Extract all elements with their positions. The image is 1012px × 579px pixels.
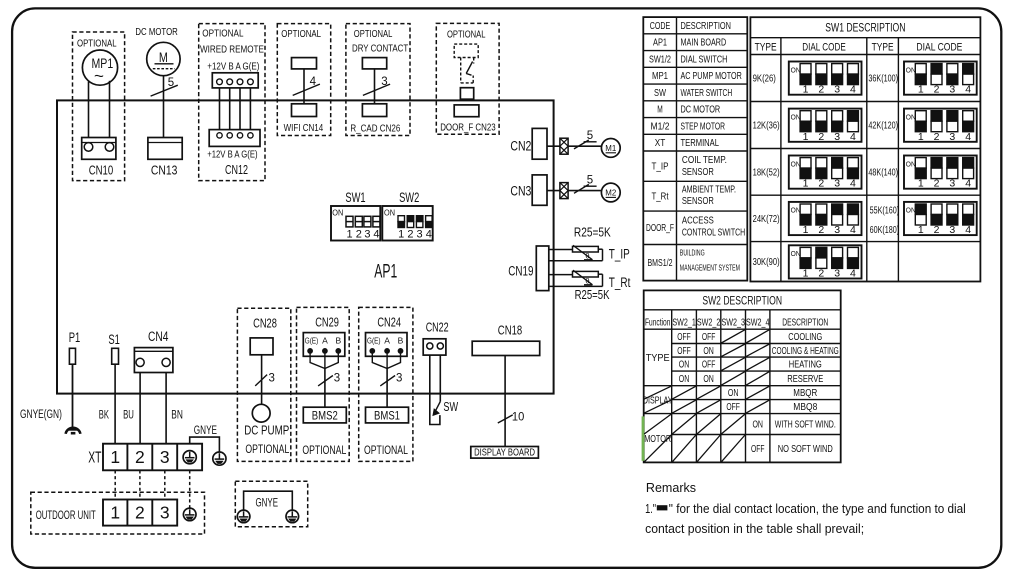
svg-text:3: 3 bbox=[834, 84, 840, 96]
svg-text:4: 4 bbox=[850, 268, 856, 280]
svg-text:MBQ8: MBQ8 bbox=[793, 402, 817, 413]
connector CN3 bbox=[532, 175, 547, 205]
svg-text:4: 4 bbox=[850, 224, 856, 236]
svg-text:OPTIONAL: OPTIONAL bbox=[354, 29, 393, 40]
svg-text:SENSOR: SENSOR bbox=[682, 196, 714, 207]
svg-text:2: 2 bbox=[818, 268, 824, 280]
connector R_CAD lower bbox=[362, 104, 386, 117]
dial code 9K(26) bbox=[789, 62, 862, 95]
wire XT3 to outdoor 3 bbox=[164, 470, 166, 499]
svg-text:ON: ON bbox=[679, 374, 690, 385]
svg-text:1: 1 bbox=[803, 178, 809, 190]
svg-text:3: 3 bbox=[334, 372, 340, 384]
svg-text:5: 5 bbox=[587, 175, 593, 187]
svg-text:R25=5K: R25=5K bbox=[574, 225, 611, 239]
wire S1 to XT1 BK bbox=[114, 364, 116, 444]
svg-text:AC PUMP MOTOR: AC PUMP MOTOR bbox=[681, 71, 742, 82]
svg-text:ON: ON bbox=[679, 360, 690, 371]
slash 5-wire mark M1 bbox=[574, 140, 589, 149]
svg-text:DC MOTOR: DC MOTOR bbox=[681, 105, 721, 116]
terminal outdoor bbox=[103, 500, 177, 526]
motor MP1 bbox=[82, 50, 117, 85]
ferrite filter CN3 bbox=[560, 183, 568, 199]
svg-text:4: 4 bbox=[850, 178, 856, 190]
svg-text:ON: ON bbox=[752, 420, 763, 431]
svg-text:1: 1 bbox=[803, 224, 809, 236]
connector CN29 bbox=[303, 333, 345, 357]
wire CN4 to XT3 BN bbox=[165, 373, 167, 444]
thermistor T_IP bbox=[549, 249, 573, 251]
svg-text:12K(36): 12K(36) bbox=[753, 121, 780, 132]
wire CN29 to BMS2 bbox=[310, 353, 338, 369]
svg-text:CODE: CODE bbox=[650, 21, 671, 32]
svg-text:ON: ON bbox=[906, 114, 916, 121]
svg-text:4: 4 bbox=[850, 84, 856, 96]
svg-text:1: 1 bbox=[918, 178, 924, 190]
svg-text:M1/2: M1/2 bbox=[651, 121, 670, 132]
wire CN24 to BMS1 bbox=[372, 353, 400, 369]
svg-text:CONTROL SWITCH: CONTROL SWITCH bbox=[682, 227, 745, 238]
outdoor unit box bbox=[31, 492, 205, 534]
connector CN10 bbox=[82, 138, 116, 160]
svg-text:COOLING: COOLING bbox=[788, 332, 822, 343]
svg-text:DIAL CODE: DIAL CODE bbox=[802, 42, 846, 54]
wire CN2 to M1 bbox=[547, 145, 602, 147]
svg-text:TYPE: TYPE bbox=[646, 352, 670, 364]
svg-text:OFF: OFF bbox=[677, 332, 691, 343]
svg-text:OPTIONAL: OPTIONAL bbox=[447, 30, 486, 41]
svg-text:ON: ON bbox=[791, 67, 801, 74]
svg-text:T_Rt: T_Rt bbox=[609, 275, 631, 290]
connector CN23 lower bbox=[454, 105, 479, 117]
wire GNYE bridge bbox=[244, 491, 293, 510]
svg-text:WIFI CN14: WIFI CN14 bbox=[284, 122, 324, 134]
svg-text:B: B bbox=[398, 335, 404, 345]
svg-text:CN29: CN29 bbox=[315, 316, 339, 330]
dial code 24K(72) bbox=[789, 202, 862, 235]
dial code 36K(100) bbox=[904, 62, 977, 95]
svg-text:SW2_2: SW2_2 bbox=[697, 317, 721, 328]
optional box CN24 BMS1 bbox=[359, 307, 413, 461]
ground GNYE external bbox=[213, 452, 226, 465]
svg-text:4: 4 bbox=[965, 131, 971, 143]
svg-text:P1: P1 bbox=[69, 330, 81, 345]
svg-text:OPTIONAL: OPTIONAL bbox=[364, 443, 408, 457]
dial code 42K(120) bbox=[904, 109, 977, 142]
display board bbox=[471, 447, 539, 459]
svg-text:DISPLAY: DISPLAY bbox=[643, 394, 673, 406]
svg-text:3: 3 bbox=[834, 268, 840, 280]
svg-text:BMS1: BMS1 bbox=[374, 410, 400, 422]
svg-text:2: 2 bbox=[135, 447, 145, 467]
svg-text:DISPLAY BOARD: DISPLAY BOARD bbox=[474, 447, 535, 458]
svg-text:M: M bbox=[159, 50, 168, 65]
svg-text:1: 1 bbox=[803, 131, 809, 143]
svg-text:M1: M1 bbox=[605, 143, 616, 153]
svg-text:SW2_1: SW2_1 bbox=[672, 317, 696, 328]
svg-text:SW2: SW2 bbox=[399, 189, 419, 205]
svg-text:GNYE: GNYE bbox=[194, 423, 217, 437]
svg-text:R25=5K: R25=5K bbox=[575, 288, 610, 302]
svg-text:OPTIONAL: OPTIONAL bbox=[202, 29, 244, 40]
slash 3-wire mark CN29 bbox=[318, 376, 333, 386]
svg-text:55K(160): 55K(160) bbox=[870, 206, 900, 217]
svg-text:+12V B A G(E): +12V B A G(E) bbox=[207, 61, 259, 72]
svg-text:MBQR: MBQR bbox=[793, 388, 817, 399]
svg-text:G(E): G(E) bbox=[367, 335, 381, 345]
svg-text:G(E): G(E) bbox=[305, 335, 319, 345]
svg-text:3: 3 bbox=[949, 84, 955, 96]
svg-text:ON: ON bbox=[703, 346, 714, 357]
svg-text:SW: SW bbox=[443, 399, 458, 414]
svg-text:3: 3 bbox=[949, 224, 955, 236]
svg-text:BMS2: BMS2 bbox=[312, 410, 338, 422]
svg-text:CN19: CN19 bbox=[508, 264, 533, 279]
svg-text:2: 2 bbox=[818, 224, 824, 236]
svg-text:COOLING & HEATING: COOLING & HEATING bbox=[772, 346, 839, 357]
dial code 48K(140) bbox=[904, 156, 977, 189]
svg-text:DIAL CODE: DIAL CODE bbox=[916, 42, 962, 54]
svg-text:2: 2 bbox=[407, 228, 413, 240]
svg-text:4: 4 bbox=[965, 84, 971, 96]
step motor M1 bbox=[601, 139, 620, 158]
svg-text:DC PUMP: DC PUMP bbox=[244, 424, 289, 438]
svg-text:3: 3 bbox=[834, 178, 840, 190]
svg-text:3: 3 bbox=[834, 131, 840, 143]
svg-text:10: 10 bbox=[512, 411, 524, 423]
svg-text:2: 2 bbox=[818, 84, 824, 96]
device BMS2 bbox=[303, 407, 346, 423]
svg-text:3: 3 bbox=[949, 131, 955, 143]
svg-text:3: 3 bbox=[834, 224, 840, 236]
svg-text:MAIN BOARD: MAIN BOARD bbox=[681, 38, 727, 49]
connector WIFI upper bbox=[292, 58, 317, 69]
svg-text:1: 1 bbox=[918, 131, 924, 143]
svg-text:5: 5 bbox=[587, 130, 593, 142]
svg-text:4: 4 bbox=[850, 131, 856, 143]
wire CN18 to display board bbox=[504, 356, 506, 447]
svg-text:ACCESS: ACCESS bbox=[682, 216, 714, 227]
svg-text:T_IP: T_IP bbox=[652, 162, 669, 173]
svg-text:3: 3 bbox=[381, 76, 387, 88]
optional box MP1 pump bbox=[73, 32, 125, 181]
step motor M2 bbox=[601, 183, 620, 202]
dial code 12K(36) bbox=[789, 109, 862, 142]
svg-text:MP1: MP1 bbox=[652, 71, 668, 82]
wire P1 to earth bbox=[72, 364, 74, 430]
svg-text:XT: XT bbox=[88, 450, 101, 467]
wire WIFI bbox=[303, 69, 305, 104]
svg-text:contact position in the tabl: contact position in the table shall prev… bbox=[645, 522, 864, 536]
svg-text:OPTIONAL: OPTIONAL bbox=[281, 29, 321, 40]
svg-text:3: 3 bbox=[160, 502, 170, 522]
svg-text:2: 2 bbox=[934, 178, 940, 190]
svg-text:3: 3 bbox=[949, 178, 955, 190]
device BMS1 bbox=[366, 407, 409, 423]
connector CN12 bbox=[209, 130, 260, 147]
svg-text:ON: ON bbox=[791, 114, 801, 121]
optional box wired remote CN12 bbox=[199, 24, 265, 181]
svg-text:4: 4 bbox=[965, 224, 971, 236]
svg-text:WIRED REMOTE: WIRED REMOTE bbox=[200, 44, 264, 55]
slash 5-wire mark M2 bbox=[574, 184, 589, 193]
svg-text:CN2: CN2 bbox=[510, 139, 531, 154]
svg-text:WATER SWITCH: WATER SWITCH bbox=[681, 88, 733, 99]
svg-text:60K(180): 60K(180) bbox=[870, 225, 900, 236]
svg-text:SW2 DESCRIPTION: SW2 DESCRIPTION bbox=[702, 295, 782, 307]
svg-text:9K(26): 9K(26) bbox=[753, 74, 776, 85]
svg-text:36K(100): 36K(100) bbox=[868, 74, 898, 85]
svg-text:2: 2 bbox=[934, 224, 940, 236]
svg-text:TYPE: TYPE bbox=[872, 42, 894, 54]
svg-text:R_CAD CN26: R_CAD CN26 bbox=[350, 123, 400, 135]
svg-text:NO SOFT WIND: NO SOFT WIND bbox=[778, 444, 833, 455]
slash 3-wire mark CN24 bbox=[380, 376, 395, 386]
green highlight bar bbox=[642, 416, 645, 460]
svg-text:CN24: CN24 bbox=[377, 316, 401, 330]
svg-text:BN: BN bbox=[171, 408, 183, 422]
svg-text:DOOR_F: DOOR_F bbox=[646, 223, 674, 234]
svg-text:1: 1 bbox=[110, 502, 120, 522]
svg-text:CN22: CN22 bbox=[426, 321, 449, 335]
svg-text:ON: ON bbox=[791, 208, 801, 215]
wire M to CN13 bbox=[163, 76, 165, 138]
svg-text:WITH SOFT WIND.: WITH SOFT WIND. bbox=[775, 420, 836, 431]
svg-text:ON: ON bbox=[906, 161, 916, 168]
SW2 description table bbox=[644, 290, 841, 462]
svg-text:CN4: CN4 bbox=[148, 329, 169, 344]
svg-text:1: 1 bbox=[346, 228, 352, 240]
svg-text:B: B bbox=[335, 335, 341, 345]
svg-text:MANAGEMENT SYSTEM: MANAGEMENT SYSTEM bbox=[680, 264, 740, 273]
svg-text:OFF: OFF bbox=[751, 444, 765, 455]
svg-text:2: 2 bbox=[356, 228, 362, 240]
svg-text:M: M bbox=[657, 105, 663, 116]
slash 4-wire mark bbox=[293, 84, 320, 95]
svg-text:OUTDOOR UNIT: OUTDOOR UNIT bbox=[36, 510, 96, 522]
svg-text:Remarks: Remarks bbox=[646, 481, 696, 495]
svg-text:CN3: CN3 bbox=[510, 184, 531, 199]
wire XT2 to outdoor 2 bbox=[139, 470, 141, 499]
svg-text:RESERVE: RESERVE bbox=[787, 374, 823, 385]
connector CN13 bbox=[148, 138, 182, 160]
optional box CN29 BMS2 bbox=[297, 307, 350, 461]
connector CN28 bbox=[250, 338, 273, 355]
wire GNYE link bbox=[190, 437, 220, 452]
motor M bbox=[147, 42, 180, 75]
svg-text:SW2_3: SW2_3 bbox=[721, 317, 745, 328]
svg-text:4: 4 bbox=[965, 178, 971, 190]
svg-text:AMBIENT TEMP.: AMBIENT TEMP. bbox=[682, 184, 736, 195]
svg-text:CN28: CN28 bbox=[253, 316, 277, 330]
svg-text:1: 1 bbox=[398, 228, 404, 240]
wire CN22 left to switch bbox=[430, 355, 440, 424]
svg-text:1: 1 bbox=[803, 84, 809, 96]
ground XT earth cell bbox=[183, 451, 196, 464]
svg-text:DESCRIPTION: DESCRIPTION bbox=[782, 317, 828, 328]
svg-text:OFF: OFF bbox=[726, 402, 740, 413]
svg-text:DC MOTOR: DC MOTOR bbox=[135, 27, 177, 38]
wire remote leads bbox=[219, 88, 221, 130]
dial code 55K/60K bbox=[904, 202, 977, 235]
svg-text:ON: ON bbox=[906, 208, 916, 215]
dial code 18K(52) bbox=[789, 156, 862, 189]
connector CN24 bbox=[366, 333, 408, 357]
svg-text:TERMINAL: TERMINAL bbox=[681, 138, 720, 149]
pump motor DC PUMP bbox=[252, 404, 270, 422]
svg-text:CN10: CN10 bbox=[89, 163, 114, 178]
GNYE earth box bbox=[235, 481, 307, 527]
svg-text:4: 4 bbox=[310, 76, 317, 88]
svg-text:ON: ON bbox=[906, 67, 916, 74]
connector wired remote plug bbox=[212, 73, 258, 88]
connector WIFI lower bbox=[292, 104, 317, 117]
svg-text:CN18: CN18 bbox=[498, 323, 522, 337]
svg-text:A: A bbox=[322, 335, 328, 345]
wire CN3 to M2 bbox=[547, 190, 602, 192]
svg-text:2: 2 bbox=[934, 84, 940, 96]
diagonal cells bbox=[721, 330, 745, 343]
svg-text:S1: S1 bbox=[108, 332, 120, 347]
svg-text:1: 1 bbox=[803, 268, 809, 280]
connector CN2 bbox=[532, 128, 547, 159]
wire CN28 to pump bbox=[261, 355, 263, 405]
svg-text:T_Rt: T_Rt bbox=[652, 192, 669, 203]
main board AP1 outline bbox=[57, 100, 554, 393]
svg-text:3: 3 bbox=[417, 228, 423, 240]
svg-text:OFF: OFF bbox=[677, 346, 691, 357]
svg-text:SW1/2: SW1/2 bbox=[649, 54, 671, 65]
wire XT1 to outdoor 1 bbox=[114, 470, 116, 499]
svg-text:OFF: OFF bbox=[702, 332, 716, 343]
SW1 description table bbox=[750, 17, 980, 281]
svg-text:SENSOR: SENSOR bbox=[682, 167, 714, 178]
thermistor T_Rt bbox=[549, 274, 573, 276]
svg-text:SW2_4: SW2_4 bbox=[746, 317, 770, 328]
svg-text:1: 1 bbox=[918, 224, 924, 236]
svg-text:BK: BK bbox=[99, 408, 109, 422]
svg-text:DOOR_F CN23: DOOR_F CN23 bbox=[440, 122, 496, 134]
svg-text:ON: ON bbox=[703, 374, 714, 385]
ground GNYE left bbox=[237, 510, 250, 523]
svg-text:SW1: SW1 bbox=[345, 189, 365, 205]
svg-text:BU: BU bbox=[123, 408, 134, 422]
slash 5-wire mark bbox=[151, 85, 178, 96]
ground outdoor earth bbox=[183, 508, 196, 521]
svg-text:OPTIONAL: OPTIONAL bbox=[77, 39, 117, 50]
svg-text:TYPE: TYPE bbox=[755, 42, 777, 54]
dial code 30K(90) bbox=[789, 245, 862, 278]
svg-text:DESCRIPTION: DESCRIPTION bbox=[681, 21, 732, 32]
svg-text:1.": 1." bbox=[645, 502, 656, 516]
connector R_CAD upper bbox=[362, 58, 386, 69]
svg-text:T_IP: T_IP bbox=[609, 246, 630, 261]
svg-text:A: A bbox=[384, 335, 390, 345]
wire CN4 to XT2 BU bbox=[139, 373, 141, 444]
svg-text:2: 2 bbox=[135, 502, 145, 522]
svg-text:Function: Function bbox=[645, 317, 670, 328]
svg-text:SW: SW bbox=[654, 88, 666, 99]
svg-text:SW1 DESCRIPTION: SW1 DESCRIPTION bbox=[825, 23, 905, 35]
wire R_CAD bbox=[374, 69, 376, 104]
svg-text:DRY CONTACT: DRY CONTACT bbox=[352, 44, 409, 55]
wire MP1 to CN10 bbox=[88, 82, 90, 138]
svg-text:3: 3 bbox=[396, 372, 402, 384]
ground GNYE(GN) bbox=[66, 428, 81, 434]
svg-text:AP1: AP1 bbox=[653, 38, 667, 49]
svg-text:ON: ON bbox=[728, 388, 739, 399]
svg-text:OFF: OFF bbox=[702, 360, 716, 371]
svg-text:1: 1 bbox=[110, 447, 120, 467]
svg-text:DIAL SWITCH: DIAL SWITCH bbox=[681, 54, 728, 65]
svg-text:24K(72): 24K(72) bbox=[753, 214, 780, 225]
connector CN19 bbox=[536, 246, 549, 291]
slash 3-wire mark bbox=[363, 84, 390, 95]
svg-text:M2: M2 bbox=[605, 188, 616, 198]
svg-text:θ: θ bbox=[585, 277, 589, 286]
optional box dry contact CN26 bbox=[346, 24, 410, 136]
connector CN23 upper bbox=[460, 88, 473, 100]
svg-text:4: 4 bbox=[426, 228, 432, 240]
svg-text:42K(120): 42K(120) bbox=[868, 121, 898, 132]
svg-text:COIL TEMP.: COIL TEMP. bbox=[682, 155, 727, 166]
svg-text:2: 2 bbox=[818, 131, 824, 143]
access switch DOOR_F bbox=[454, 44, 478, 57]
svg-text:STEP MOTOR: STEP MOTOR bbox=[681, 121, 726, 132]
svg-text:CN13: CN13 bbox=[151, 163, 178, 178]
svg-text:48K(140): 48K(140) bbox=[868, 168, 898, 179]
optional box DOOR_F CN23 bbox=[436, 23, 499, 134]
svg-text:3: 3 bbox=[364, 228, 370, 240]
svg-text:+12V B A G(E): +12V B A G(E) bbox=[207, 150, 257, 161]
svg-text:2: 2 bbox=[934, 131, 940, 143]
optional box WIFI CN14 bbox=[277, 24, 330, 136]
optional box CN28 DC pump bbox=[237, 308, 290, 461]
svg-text:4: 4 bbox=[373, 228, 379, 240]
water switch SW bbox=[439, 355, 441, 401]
svg-text:BMS1/2: BMS1/2 bbox=[648, 258, 673, 269]
svg-text:30K(90): 30K(90) bbox=[753, 257, 780, 268]
code table bbox=[643, 17, 747, 281]
ground GNYE right bbox=[286, 510, 299, 523]
svg-text:5: 5 bbox=[168, 77, 174, 89]
svg-text:OPTIONAL: OPTIONAL bbox=[245, 442, 289, 456]
svg-text:1: 1 bbox=[918, 84, 924, 96]
wire XT earth to outdoor earth bbox=[189, 470, 191, 508]
ferrite filter CN2 bbox=[560, 138, 568, 154]
svg-text:BUILDING: BUILDING bbox=[680, 249, 705, 258]
svg-text:CN12: CN12 bbox=[225, 162, 248, 177]
svg-text:ON: ON bbox=[332, 209, 343, 218]
slash 3-wire mark CN28 bbox=[255, 375, 267, 386]
svg-text:3: 3 bbox=[269, 372, 275, 384]
svg-text:GNYE(GN): GNYE(GN) bbox=[20, 409, 62, 421]
svg-text:GNYE: GNYE bbox=[256, 495, 279, 509]
svg-text:AP1: AP1 bbox=[374, 261, 397, 283]
svg-text:3: 3 bbox=[160, 447, 170, 467]
svg-text:ON: ON bbox=[791, 251, 801, 258]
svg-text:~: ~ bbox=[94, 67, 104, 86]
svg-text:HEATING: HEATING bbox=[789, 360, 822, 371]
svg-text:2: 2 bbox=[818, 178, 824, 190]
svg-text:18K(52): 18K(52) bbox=[753, 168, 780, 179]
svg-text:OPTIONAL: OPTIONAL bbox=[302, 443, 346, 457]
svg-text:XT: XT bbox=[655, 138, 666, 149]
svg-text:ON: ON bbox=[791, 161, 801, 168]
svg-text:" for the dial contact locatio: " for the dial contact location, the typ… bbox=[669, 502, 966, 516]
slash 10-wire mark bbox=[498, 415, 513, 423]
svg-text:θ: θ bbox=[585, 252, 589, 261]
